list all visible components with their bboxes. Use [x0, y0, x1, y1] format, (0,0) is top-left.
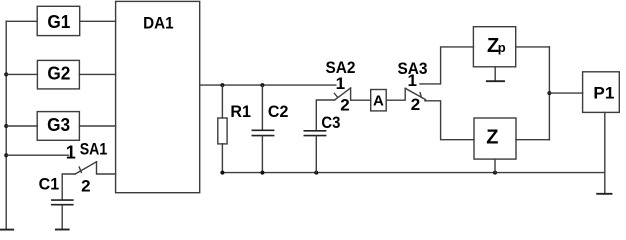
wire: SA3 pin 2 to Z: [425, 101, 474, 140]
wire: Z bottom lead: [494, 159, 496, 173]
wire: bus to G2: [6, 73, 37, 75]
switch SA3 arm: [405, 88, 425, 99]
switch SA1 contact stub: [79, 167, 81, 173]
svg-text:P1: P1: [593, 84, 614, 103]
switch SA3 contact stub: [420, 93, 421, 98]
wire: C3 to SA2 pivot: [316, 100, 334, 130]
node: junction to P1: [547, 91, 551, 95]
svg-text:SA1: SA1: [80, 140, 108, 159]
node: bus-SA1 junction: [4, 153, 8, 157]
ground (C1): [56, 229, 69, 231]
generator G2: [37, 60, 79, 89]
svg-text:1: 1: [66, 142, 76, 162]
impedance Zp: [473, 27, 515, 67]
svg-text:G1: G1: [47, 12, 70, 32]
svg-text:2: 2: [340, 96, 349, 115]
wire: SA1 arm tip to DA1: [97, 162, 116, 174]
svg-text:R1: R1: [230, 102, 251, 121]
wire: A to SA3 pivot: [386, 88, 405, 100]
wire: Zp to right junction: [516, 46, 550, 48]
wire: bus to G3: [6, 125, 37, 127]
wire: SA3 contact 1 to Zp: [420, 47, 473, 84]
generator G3: [37, 112, 79, 141]
wire: C2 bottom lead: [261, 136, 263, 172]
wire: R1 bottom lead: [221, 144, 223, 173]
svg-text:2: 2: [411, 95, 420, 114]
svg-text:DA1: DA1: [143, 13, 174, 32]
wire: bottom rail: [222, 172, 604, 174]
wire: Z to right junction: [516, 139, 549, 141]
wire: bus to G1: [6, 20, 37, 22]
wire: left bus: [5, 21, 7, 229]
wire: C2 top lead: [261, 85, 263, 129]
ammeter A: [371, 90, 387, 111]
wire: Zp ground stem: [494, 67, 496, 80]
switch SA2 arm: [335, 88, 351, 100]
wire: DA1 output: [200, 84, 336, 86]
wire: G1 to DA1: [80, 20, 116, 22]
wire: right junction vertical: [548, 47, 550, 140]
wire: G3 to DA1: [79, 125, 115, 127]
svg-text:G2: G2: [47, 64, 70, 84]
wire: P1 to ground: [604, 112, 606, 193]
impedance Z: [474, 118, 516, 159]
wire: junction to P1: [549, 92, 582, 94]
capacitor C2: [252, 130, 273, 135]
wire: SA2 arm tip to A: [351, 88, 371, 100]
node: rail-C3 junction: [314, 171, 318, 175]
switch SA2 contact stub: [334, 93, 337, 97]
resistor R1: [218, 118, 227, 144]
node: rail-Z junction: [493, 171, 497, 175]
wire: C1 to ground: [61, 206, 63, 229]
meter P1: [583, 72, 620, 113]
svg-text:C3: C3: [321, 113, 340, 132]
ground (P1): [597, 193, 611, 195]
switch SA1 arm: [75, 162, 96, 174]
capacitor C1: [52, 200, 73, 205]
ground (Zp): [487, 80, 504, 82]
node: rail-C2 junction: [260, 171, 264, 175]
op-amp IC DA1: [116, 1, 200, 192]
wire: R1 top lead: [221, 85, 223, 118]
ground (left bus bottom): [0, 229, 13, 231]
wire: C1 to SA1 pivot: [62, 174, 75, 199]
wire: G2 to DA1: [79, 73, 115, 75]
svg-text:A: A: [373, 93, 384, 110]
node: bus-G2 junction: [4, 72, 8, 76]
svg-text:1: 1: [336, 74, 345, 93]
wire: bus to SA1 contact 1: [6, 154, 68, 156]
wire: C3 bottom lead: [315, 136, 317, 172]
node: bus-G3 junction: [4, 124, 8, 128]
generator G1: [37, 6, 79, 35]
capacitor C3: [304, 131, 325, 136]
node: C2 tap: [260, 83, 264, 87]
node: rail-R1 junction: [220, 171, 224, 175]
svg-text:Z: Z: [486, 127, 498, 149]
svg-text:1: 1: [407, 71, 416, 90]
svg-text:C1: C1: [39, 175, 60, 194]
svg-text:G3: G3: [47, 115, 70, 135]
svg-text:C2: C2: [268, 102, 289, 121]
svg-text:2: 2: [81, 176, 90, 195]
node: R1 tap: [220, 83, 224, 87]
svg-text:p: p: [498, 40, 506, 55]
